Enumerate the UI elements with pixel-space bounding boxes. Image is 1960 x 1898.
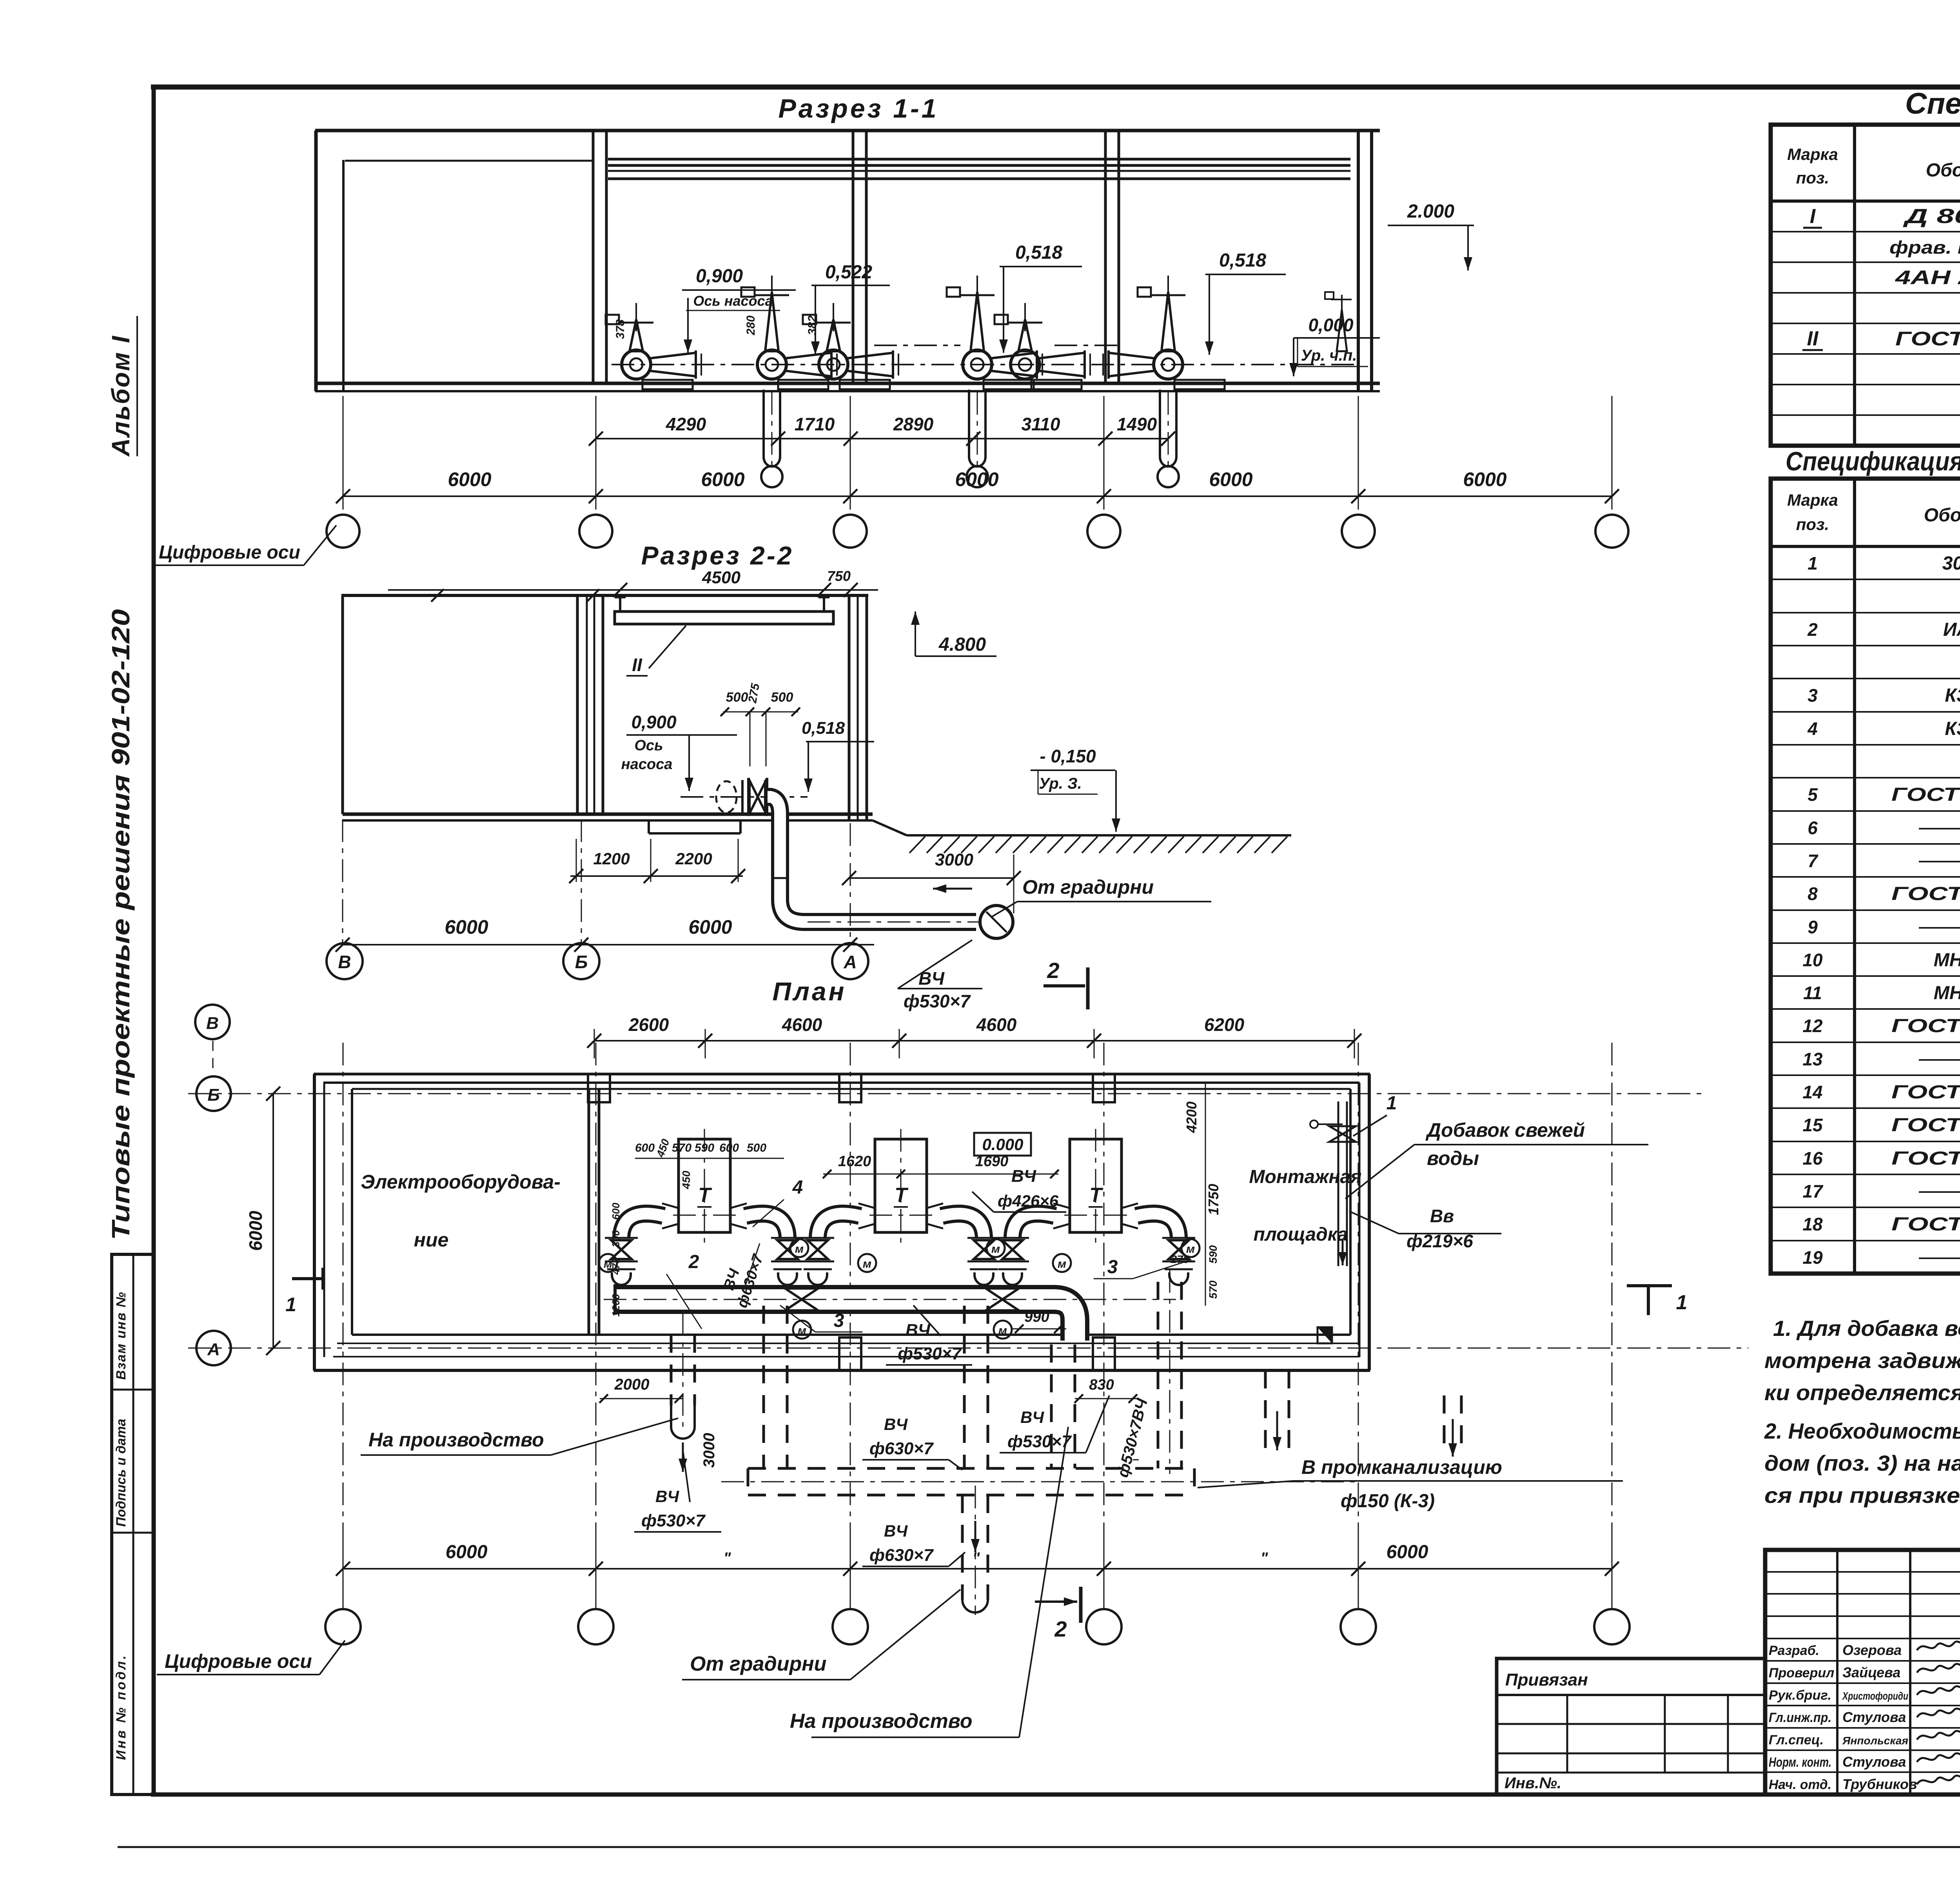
svg-text:6000: 6000 [1387,1542,1428,1562]
svg-text:570: 570 [1207,1280,1219,1299]
svg-text:1490: 1490 [1117,414,1157,434]
svg-text:I: I [1810,205,1816,228]
svg-text:2.000: 2.000 [1407,201,1454,222]
svg-text:1750: 1750 [1205,1184,1221,1215]
svg-text:1: 1 [1387,1093,1397,1114]
svg-text:м: м [1058,1257,1066,1270]
series label (rotated): Типовые проектные решения 901-02-120 [107,609,135,1240]
svg-text:Вв: Вв [1430,1206,1454,1226]
svg-text:ф630×7: ф630×7 [869,1546,934,1565]
label Монтажная площадка [1249,1167,1362,1245]
svg-text:6: 6 [1808,818,1818,838]
plan dim 2000 [599,1376,683,1403]
section 2-2 pump and valve [649,778,808,833]
plan suction header ВЧ530 [604,1284,1176,1341]
section 1-1 title [778,94,938,123]
label ВЧ ф530х7 under section 2-2 [898,940,982,1011]
svg-text:600: 600 [719,1141,739,1154]
svg-text:ВЧ: ВЧ [1011,1167,1036,1186]
svg-text:На производство: На производство [790,1710,973,1733]
svg-text:м: м [795,1243,804,1256]
svg-text:": " [724,1550,731,1567]
svg-text:500: 500 [771,690,793,705]
svg-text:275: 275 [1171,1253,1189,1265]
spec table 2 title [1786,446,1960,476]
section 1-1 level mark 0,000 floor [1289,315,1380,376]
svg-text:6000: 6000 [245,1210,266,1251]
privyazan box [1497,1658,1765,1795]
label Электрооборудование [361,1171,561,1251]
plan rotated pipe label at pump 1 [720,1243,767,1310]
svg-text:От градирни: От градирни [1022,876,1154,898]
section 2-2 level -0,150 [1031,746,1120,832]
svg-text:6000: 6000 [445,916,488,938]
svg-text:1710: 1710 [795,414,835,434]
plan pump unit 3 (pos T) [996,1129,1200,1285]
svg-text:II: II [632,655,642,675]
svg-text:280: 280 [744,316,757,336]
section 1-1 pump unit 2 (pump with suction) [741,276,837,487]
svg-text:1. Для добавка воды из произво: 1. Для добавка воды из производственного… [1773,1316,1960,1341]
svg-text:Альбом I: Альбом I [107,335,135,457]
label цифровые оси (lower) [157,1640,345,1675]
svg-text:6000: 6000 [701,468,744,490]
section 2-2 dim 4500/750 [388,568,878,597]
section 2-2 ground line with hatching [907,835,1291,853]
plan pump unit 1 (pos T) [599,1129,808,1285]
section 1-1 building walls [315,131,1380,391]
svg-text:478: 478 [610,1257,622,1275]
svg-text:ГОСТ 17379-77: ГОСТ 17379-77 [1891,1082,1960,1103]
label На производство (plan left) [361,1418,678,1455]
svg-text:План: План [772,977,846,1006]
svg-text:2200: 2200 [675,849,712,868]
svg-text:1: 1 [285,1294,296,1316]
svg-text:ГОСТ 10704- 76: ГОСТ 10704- 76 [1891,784,1960,805]
label ВЧ ф426х6 [972,1167,1066,1212]
svg-text:4.800: 4.800 [938,634,986,655]
plan bottom axis circles [325,1576,1630,1644]
svg-text:ВЧ: ВЧ [906,1321,931,1340]
svg-text:Инв № подл.: Инв № подл. [114,1653,129,1760]
svg-text:4600: 4600 [782,1014,822,1035]
svg-text:6000: 6000 [448,468,491,490]
svg-text:Марка: Марка [1787,145,1838,163]
svg-text:Ур. ч.п.: Ур. ч.п. [1301,347,1357,364]
section 2-2 dim 3000 [842,850,1021,913]
svg-text:Взам инв №: Взам инв № [114,1291,129,1380]
svg-text:насоса: насоса [621,756,673,773]
svg-text:Обозначение: Обозначение [1926,160,1960,181]
svg-text:6000: 6000 [446,1542,488,1562]
svg-text:4: 4 [1807,719,1818,739]
svg-text:ф630×7: ф630×7 [869,1439,934,1458]
svg-text:А: А [207,1340,220,1359]
svg-text:Спецификация на трубопроводную: Спецификация на трубопроводную арматуру … [1786,446,1960,476]
svg-text:Привязан: Привязан [1505,1670,1588,1689]
svg-text:2000: 2000 [614,1376,650,1393]
label Добавок свежей воды [1345,1119,1648,1199]
section mark 2 (top) [1044,958,1088,1009]
svg-text:ГОСТ 5915-70*: ГОСТ 5915-70* [1891,1214,1960,1235]
svg-text:5: 5 [1808,784,1818,805]
bottom paper edge line [118,1846,1960,1848]
dim 990 [1011,1309,1066,1333]
svg-text:12: 12 [1802,1016,1823,1036]
svg-text:Спецификация оборудования: Спецификация оборудования [1905,87,1960,120]
svg-text:поз.: поз. [1796,515,1829,533]
svg-text:0,000: 0,000 [1308,315,1354,335]
section 2-2 axis circles В Б А [327,943,868,979]
svg-text:От градирни: От градирни [690,1653,826,1675]
svg-text:8: 8 [1808,884,1818,904]
section 2-2 discharge pipe elbow down to cooling tower main [768,797,1013,938]
svg-text:0,518: 0,518 [1015,242,1062,263]
svg-text:Стулова: Стулова [1842,1754,1906,1770]
svg-text:2. Необходимость и место устан: 2. Необходимость и место установки расхо… [1764,1419,1960,1443]
svg-text:Проверил: Проверил [1769,1666,1834,1680]
svg-text:ф530×7: ф530×7 [1007,1432,1072,1451]
svg-text:- 0,150: - 0,150 [1040,746,1096,766]
svg-text:382: 382 [806,316,819,335]
svg-text:": " [973,1550,980,1567]
section 1-1 axis dashdot segments [874,345,1121,346]
plan wall columns [588,1074,1115,1370]
svg-text:1200: 1200 [593,849,630,868]
section marks 1 left and right [285,1268,1687,1316]
labels ВЧ630 ВЧ530 bottom area [634,1395,1151,1566]
svg-text:ки определяется при привязк: ки определяется при привязке проектных р… [1764,1380,1960,1405]
section 2-2 dim 6000+6000 [336,819,874,952]
svg-text:3: 3 [1107,1257,1118,1277]
svg-text:4АН 280 S4У3: 4АН 280 S4У3 [1895,267,1960,289]
section 1-1 pump unit 1 (motor) [606,303,701,389]
svg-text:Марка: Марка [1787,491,1838,509]
svg-text:6000: 6000 [1463,468,1506,490]
svg-text:воды: воды [1427,1147,1479,1169]
svg-text:Т: Т [895,1184,909,1207]
svg-text:6000: 6000 [688,916,732,938]
svg-text:9: 9 [1808,917,1818,937]
svg-text:990: 990 [1024,1309,1049,1325]
svg-text:570: 570 [672,1141,691,1154]
svg-text:ГОСТ 1234-67*: ГОСТ 1234-67* [1891,884,1960,904]
label На производство (lower) [790,1427,1068,1737]
svg-text:м: м [991,1243,1000,1256]
svg-text:ВЧ: ВЧ [884,1522,908,1540]
album label (rotated) [107,316,137,457]
section 1-1 pump unit 6 (pump with suction) [1103,276,1225,487]
section 1-1 lower dim chain 4290/1710/2890/3110/1490 [589,414,1175,446]
svg-text:дом (поз. 3) на напорных тр: дом (поз. 3) на напорных трубопроводах о… [1764,1451,1960,1475]
svg-text:Разраб.: Разраб. [1769,1643,1819,1658]
svg-text:ВЧ: ВЧ [918,968,945,989]
svg-text:0,900: 0,900 [696,266,743,287]
section 1-1 pump unit 3 (motor) [803,303,898,389]
svg-text:КЗ 44067: КЗ 44067 [1945,719,1960,739]
svg-text:КЗ 99001: КЗ 99001 [1945,685,1960,706]
svg-text:Нач. отд.: Нач. отд. [1769,1777,1831,1792]
svg-text:500: 500 [726,690,748,705]
svg-text:Типовые проектные решения 901: Типовые проектные решения 901-02-120 [107,609,135,1240]
svg-text:Цифровые оси: Цифровые оси [165,1650,312,1672]
svg-text:3: 3 [834,1310,844,1331]
svg-text:ВЧ: ВЧ [655,1487,679,1506]
svg-text:600: 600 [635,1141,655,1154]
svg-text:м: м [798,1324,806,1337]
svg-text:1690: 1690 [975,1153,1009,1170]
svg-text:МН 2883-62: МН 2883-62 [1934,983,1960,1003]
svg-text:Разрез 1-1: Разрез 1-1 [778,94,938,123]
section 2-2 small dims 500/275/500 [720,682,800,766]
svg-text:2600: 2600 [628,1014,669,1035]
svg-text:ИА 99044: ИА 99044 [1943,619,1960,640]
svg-text:ВЧ: ВЧ [884,1415,908,1433]
label ВЧ ф530х7 (header) [886,1305,972,1365]
plan drain outfall pipe down [962,1486,988,1615]
svg-text:1: 1 [1808,553,1818,573]
title block staff grid [1765,1550,1960,1795]
svg-text:750: 750 [827,568,851,584]
section 2-2 dims 1200/2200 [569,839,745,883]
svg-text:ГОСТ 7798-70*: ГОСТ 7798-70* [1891,1148,1960,1169]
svg-text:378: 378 [614,319,627,339]
svg-text:Рук.бриг.: Рук.бриг. [1769,1688,1831,1703]
section 2-2 label От градирни [991,876,1211,917]
svg-text:30ч906бр: 30ч906бр [1942,553,1960,574]
svg-text:Б: Б [207,1085,220,1105]
svg-text:4600: 4600 [976,1014,1017,1035]
plan small dims above pump 1 [635,1137,784,1189]
svg-text:6200: 6200 [1204,1014,1245,1035]
svg-text:3110: 3110 [1022,414,1060,434]
svg-text:В: В [338,952,351,972]
svg-text:Ур. З.: Ур. З. [1039,775,1082,792]
section 2-2 level 0,900 pump axis [621,712,737,791]
svg-text:ф150 (К-3): ф150 (К-3) [1341,1491,1435,1512]
svg-text:Трубников: Трубников [1842,1776,1917,1792]
svg-text:4: 4 [792,1177,803,1198]
svg-text:3000: 3000 [701,1433,718,1468]
plan right vertical dims 4200 1750 590 570 [1171,1082,1221,1306]
plan header inline valve 1 [785,1288,818,1339]
svg-text:ГОСТ 17375-72: ГОСТ 17375-72 [1891,1016,1960,1036]
svg-text:ВЧ: ВЧ [1020,1408,1044,1426]
label Вв ф219х6 [1349,1206,1501,1251]
svg-text:Озерова: Озерова [1842,1642,1902,1658]
plan pump unit 2 (pos T) [801,1129,1005,1285]
svg-text:0,518: 0,518 [1219,250,1266,271]
plan top dim chain 2600/4600/4600/6200 [587,1014,1361,1058]
svg-text:ГОСТ 6533 - 78: ГОСТ 6533 - 78 [1891,1115,1960,1136]
svg-text:Янпольская: Янпольская [1842,1735,1908,1747]
section 1-1 main 6000 dim chain [336,396,1619,510]
plan title [772,977,846,1006]
svg-text:ф530×7: ф530×7 [898,1344,962,1363]
svg-text:1: 1 [1676,1291,1688,1314]
section mark 2 bottom [1035,1587,1081,1641]
plan discharge pipes (dashed) [671,1270,1461,1474]
plan dim 830 [1074,1377,1137,1403]
svg-text:600: 600 [610,1203,622,1220]
plan axis circles В Б А [195,1005,231,1365]
svg-text:7: 7 [1808,851,1818,871]
svg-text:2: 2 [1807,619,1818,640]
svg-text:Ось насоса: Ось насоса [693,293,773,309]
svg-text:6000: 6000 [955,468,998,490]
section 1-1 level mark 0,518 (b) [1205,250,1286,355]
svg-text:590: 590 [695,1141,714,1154]
svg-text:ф530×7: ф530×7 [641,1511,706,1530]
section 1-1 crane beam [608,159,1350,179]
svg-text:300: 300 [610,1230,622,1247]
spec table 1 rows [1802,202,1960,411]
svg-text:В промканализацию: В промканализацию [1301,1456,1502,1478]
plan fresh water pipe and valve (pos 1) [1310,1093,1397,1266]
plan vertical dim 6000 [245,1087,280,1355]
section 1-1 hoist near wall [1325,292,1352,351]
plan corner drain marker [1318,1327,1332,1343]
svg-text:1620: 1620 [838,1153,871,1170]
svg-text:Добавок свежей: Добавок свежей [1425,1119,1585,1141]
section 1-1 small rotated dims [614,316,819,339]
svg-text:0,518: 0,518 [802,719,845,738]
plan axis lines [188,1041,1748,1607]
svg-text:0.000: 0.000 [982,1135,1023,1154]
svg-text:Электрооборудова-: Электрооборудова- [361,1171,561,1193]
svg-text:2890: 2890 [893,414,934,434]
label: цифровые оси (upper) [155,525,336,565]
svg-text:поз.: поз. [1796,169,1829,187]
svg-text:16: 16 [1802,1148,1823,1169]
section 1-1 pump axis line [612,364,1356,365]
svg-text:Христофориди: Христофориди [1842,1690,1908,1702]
svg-text:На производство: На производство [368,1429,544,1451]
svg-text:м: м [863,1257,871,1270]
svg-text:13: 13 [1802,1049,1823,1069]
plan header inline valve 2 [986,1288,1019,1339]
svg-text:6000: 6000 [1209,468,1252,490]
section 2-2 level 4.800 [911,611,996,656]
left margin stamp table (inv no / podpis / vzam) [112,1254,154,1795]
section 2-2 level 0,518 [802,719,874,792]
svg-text:фрав. кол = 405мм: фрав. кол = 405мм [1889,237,1960,258]
svg-text:": " [1261,1550,1269,1567]
section 1-1 level mark 0,522 [811,262,890,355]
plan building walls [314,1074,1370,1370]
section 2-2 title [641,541,794,570]
svg-text:площадка: площадка [1254,1224,1348,1245]
spec table 1 title [1905,87,1960,120]
section 1-1 level mark 0,518 (a) [999,242,1082,353]
svg-text:Подпись и дата: Подпись и дата [114,1419,129,1527]
svg-text:В: В [206,1014,219,1033]
svg-text:11: 11 [1803,983,1822,1003]
plan bottom dim line 6000 [336,1537,1619,1576]
section 2-2 crane beam (pos II) [615,597,833,676]
svg-text:Гл.инж.пр.: Гл.инж.пр. [1769,1710,1831,1725]
svg-text:1200: 1200 [610,1294,622,1317]
svg-text:Разрез 2-2: Разрез 2-2 [641,541,794,570]
svg-text:Монтажная: Монтажная [1249,1167,1362,1187]
svg-text:830: 830 [1089,1377,1114,1393]
section 1-1 pump unit 5 (motor) [995,303,1090,389]
svg-text:4290: 4290 [666,414,706,434]
plan poz labels 2 3 4 3 [666,1177,1190,1332]
svg-text:3000: 3000 [935,850,973,869]
svg-text:Обозначение: Обозначение [1924,505,1960,526]
svg-text:ф530×7: ф530×7 [904,991,971,1011]
plan dim 3000 (rotated) [701,1433,718,1468]
svg-text:Цифровые оси: Цифровые оси [159,542,300,563]
section 1-1 level mark 0,900 axis of pump [682,266,796,353]
svg-text:А: А [843,952,857,972]
svg-text:мотрена задвижка (поз.1) с эле: мотрена задвижка (поз.1) с электропривод… [1764,1348,1960,1373]
svg-text:Б: Б [575,952,588,972]
svg-text:Т: Т [698,1184,712,1207]
svg-text:ся при привязке проектных: ся при привязке проектных решений. [1764,1483,1960,1508]
svg-text:0,900: 0,900 [631,712,677,732]
svg-text:17: 17 [1802,1181,1824,1201]
svg-text:4200: 4200 [1183,1101,1200,1133]
section 1-1 axis circles [327,515,1628,548]
plan drain collector (dashed rectangle) [721,1468,1360,1495]
notes paragraph [1764,1316,1960,1508]
svg-text:ние: ние [414,1229,449,1251]
svg-text:15: 15 [1802,1115,1823,1135]
svg-text:2: 2 [688,1252,699,1272]
svg-text:ГОСТ 7413 - 69: ГОСТ 7413 - 69 [1895,328,1960,350]
svg-text:450: 450 [680,1170,692,1189]
svg-text:II: II [1807,327,1819,350]
svg-text:500: 500 [747,1141,766,1154]
svg-text:ф426×6: ф426×6 [998,1192,1059,1210]
plan dims 1620 1690 [823,1153,1059,1178]
svg-text:2: 2 [1054,1617,1067,1641]
svg-text:Гл.спец.: Гл.спец. [1769,1733,1824,1747]
plan level 0.000 box [974,1133,1031,1156]
spec table 2 rows [1802,553,1960,1268]
svg-text:4500: 4500 [702,568,740,587]
spec table 2 (pipeline fittings) [1771,479,1960,1274]
svg-text:Д 800 - 57а: Д 800 - 57а [1903,205,1960,228]
svg-text:19: 19 [1802,1247,1823,1268]
label От градирни (lower) [682,1590,960,1680]
svg-text:0,522: 0,522 [825,262,872,283]
section 1-1 pump unit 4 (pump with suction) [947,276,1042,487]
spec table 1 (equipment) [1771,125,1960,446]
section 1-1 level mark 2.000 [1388,201,1474,270]
svg-text:м: м [998,1324,1007,1337]
svg-text:14: 14 [1802,1082,1822,1102]
svg-text:МН 2884-62: МН 2884-62 [1934,950,1960,971]
plan left tiny dims [610,1203,622,1317]
svg-text:590: 590 [1207,1245,1219,1263]
label В промканализацию ф150 (К-3) [1198,1456,1623,1512]
svg-text:Зайцева: Зайцева [1842,1664,1900,1680]
svg-text:Ось: Ось [634,737,663,754]
svg-text:10: 10 [1802,950,1823,970]
svg-text:Норм. конт.: Норм. конт. [1769,1755,1831,1770]
title block outline [1765,1550,1960,1795]
svg-text:Т: Т [1089,1184,1103,1207]
svg-text:Стулова: Стулова [1842,1709,1906,1725]
svg-text:3: 3 [1808,685,1818,706]
section 2-2 structure [341,589,907,835]
svg-text:Инв.№.: Инв.№. [1504,1775,1561,1792]
svg-text:18: 18 [1802,1214,1823,1234]
svg-text:2: 2 [1047,958,1059,983]
